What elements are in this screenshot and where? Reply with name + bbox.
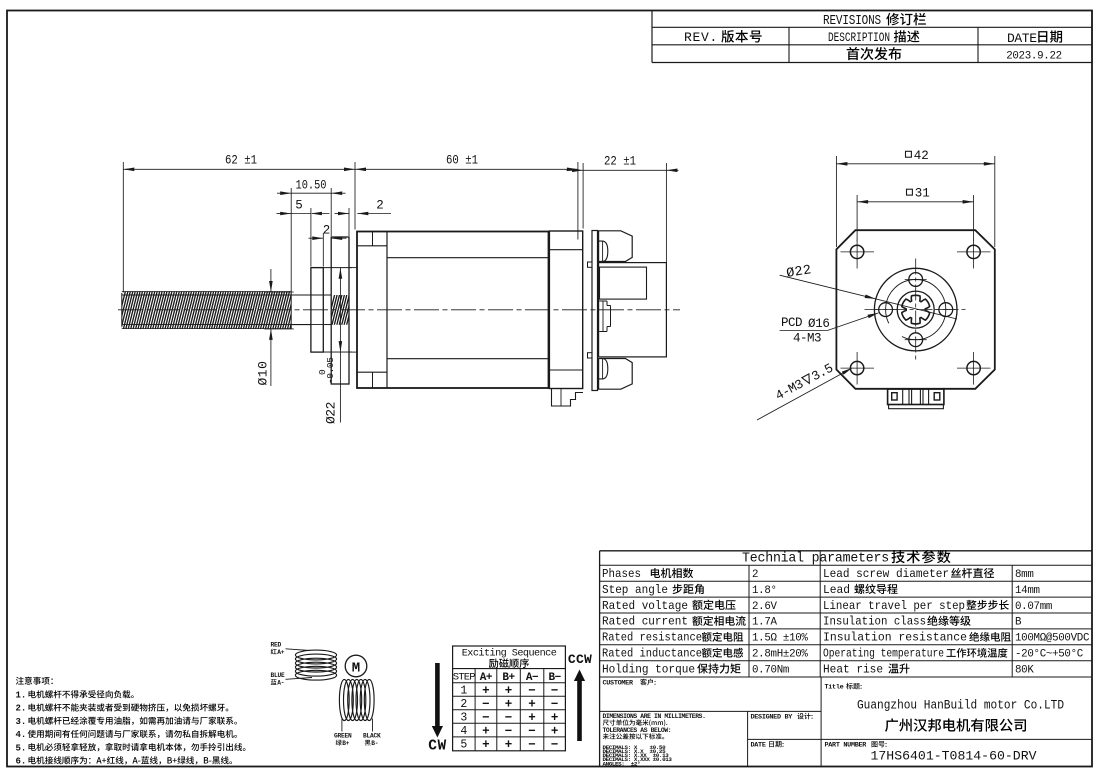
title block xyxy=(600,677,1092,767)
svg-text:5: 5 xyxy=(295,199,303,213)
svg-text:−: − xyxy=(528,738,536,752)
svg-text:B-: B- xyxy=(371,740,378,747)
svg-text:2.8mH±20%: 2.8mH±20% xyxy=(752,649,808,661)
svg-text:Rated current: Rated current xyxy=(602,615,688,629)
svg-text:Rated voltage: Rated voltage xyxy=(602,599,688,613)
exciting sequence table xyxy=(453,646,566,751)
dim 10.50 xyxy=(277,179,346,293)
CCW arrow xyxy=(568,652,592,741)
center shaft end detail xyxy=(599,301,610,332)
terminal pass-through tabs xyxy=(588,262,593,267)
svg-text:10.50: 10.50 xyxy=(296,179,327,193)
svg-text:A−: A− xyxy=(526,672,539,684)
svg-text:RED: RED xyxy=(271,642,282,649)
svg-text:+: + xyxy=(505,684,513,698)
svg-text:PCD: PCD xyxy=(781,316,809,330)
svg-text:TOLERANCES AS BELOW:: TOLERANCES AS BELOW: xyxy=(603,727,672,734)
svg-text:+: + xyxy=(551,724,559,738)
svg-text:DESIGNED BY: DESIGNED BY xyxy=(751,714,794,722)
svg-text:17HS6401-T0814-60-DRV: 17HS6401-T0814-60-DRV xyxy=(871,749,1037,764)
spline gear profile xyxy=(902,295,930,324)
screw thread end line xyxy=(290,292,292,329)
CW arrow xyxy=(428,663,446,755)
svg-text:14mm: 14mm xyxy=(1015,585,1040,597)
svg-text:Linear travel per step: Linear travel per step xyxy=(823,599,965,613)
svg-text:−: − xyxy=(528,724,536,738)
svg-text:B: B xyxy=(1015,617,1022,629)
label PCD dia16 / 4-M3 with leader xyxy=(780,313,879,346)
svg-text:A-: A- xyxy=(277,679,284,686)
svg-text:+: + xyxy=(505,697,513,711)
svg-text:1.5Ω ±10%: 1.5Ω ±10% xyxy=(752,633,808,645)
svg-text:22 ±1: 22 ±1 xyxy=(604,155,636,169)
front view centerlines xyxy=(915,259,917,361)
svg-text:B−: B− xyxy=(548,672,561,684)
svg-text:+: + xyxy=(482,738,490,752)
washer A (diam 22) xyxy=(311,268,323,353)
svg-text:STEP: STEP xyxy=(453,672,476,684)
svg-text:BLUE: BLUE xyxy=(271,672,286,679)
svg-text:Step angle: Step angle xyxy=(602,583,668,597)
svg-text:−: − xyxy=(505,724,513,738)
svg-text:1.7A: 1.7A xyxy=(752,617,778,629)
motor body side view xyxy=(357,232,549,389)
rear housing xyxy=(549,231,582,389)
svg-text:100MΩ@500VDC: 100MΩ@500VDC xyxy=(1015,633,1090,645)
svg-text:M: M xyxy=(352,661,360,677)
dim 22 +-1 xyxy=(567,155,679,263)
mounting hole BR xyxy=(957,352,991,385)
svg-text:+: + xyxy=(528,711,536,725)
PCD dia16 circle (with gap) xyxy=(886,280,946,340)
svg-text:A+: A+ xyxy=(277,649,285,656)
dim 2 pilot xyxy=(335,199,392,237)
svg-text:62 ±1: 62 ±1 xyxy=(225,154,257,168)
svg-text:2: 2 xyxy=(323,224,331,238)
boss circle dia22 xyxy=(874,268,957,351)
phase A wire top xyxy=(286,649,311,651)
svg-text:Ø16: Ø16 xyxy=(808,317,830,331)
svg-text:Heat rise: Heat rise xyxy=(823,662,883,676)
phase B wire right xyxy=(372,719,374,732)
dim dia22 tolerance xyxy=(312,268,352,424)
technical parameters table xyxy=(600,551,1092,767)
dim 60 +-1 xyxy=(355,154,578,240)
svg-text:Exciting Sequence: Exciting Sequence xyxy=(462,648,557,660)
middle connector inner box xyxy=(600,267,647,299)
svg-text:GREEN: GREEN xyxy=(334,733,352,740)
svg-text:0.70Nm: 0.70Nm xyxy=(752,664,789,676)
lead screw (hatched) xyxy=(116,291,331,329)
svg-text:8mm: 8mm xyxy=(1015,569,1034,581)
dim square31 xyxy=(857,187,974,241)
svg-text:4-M3: 4-M3 xyxy=(793,332,821,346)
svg-text:Ø10: Ø10 xyxy=(256,361,271,386)
svg-text:CUSTOMER: CUSTOMER xyxy=(603,680,634,688)
svg-text:2023.9.22: 2023.9.22 xyxy=(1006,51,1062,63)
svg-text:REV.: REV. xyxy=(684,30,718,45)
svg-text:Insulation resistance: Insulation resistance xyxy=(823,631,967,645)
svg-text:−: − xyxy=(551,738,559,752)
mounting hole BL xyxy=(841,352,875,385)
svg-text:1.8°: 1.8° xyxy=(752,585,777,597)
svg-text:4.: 4. xyxy=(16,730,27,740)
dim 5 xyxy=(277,199,330,267)
svg-text:−: − xyxy=(528,684,536,698)
mounting hole TR xyxy=(957,240,991,269)
svg-text:Title: Title xyxy=(825,684,844,692)
svg-text:−: − xyxy=(482,711,490,725)
body chamfer lines xyxy=(387,257,549,259)
svg-text:2: 2 xyxy=(376,199,384,213)
svg-text:+: + xyxy=(482,684,490,698)
svg-text:REVISIONS: REVISIONS xyxy=(823,14,881,29)
svg-text:-20°C~+50°C: -20°C~+50°C xyxy=(1015,649,1084,661)
svg-text:80K: 80K xyxy=(1015,664,1034,676)
svg-text:5.: 5. xyxy=(16,743,27,753)
bottom terminal screw head xyxy=(599,359,608,379)
front view body xyxy=(836,230,994,389)
label dia22 with leader xyxy=(780,263,957,319)
cap chamfer lines xyxy=(357,245,387,247)
flange disc B xyxy=(331,237,349,384)
svg-text:Lead screw diameter: Lead screw diameter xyxy=(823,567,949,581)
spline bore circle xyxy=(897,291,934,328)
svg-text:+: + xyxy=(551,711,559,725)
notes title xyxy=(16,677,53,685)
svg-text:Holding torque: Holding torque xyxy=(602,662,695,676)
top terminal block xyxy=(599,231,633,262)
svg-text:CCW: CCW xyxy=(568,652,592,667)
svg-text:PART NUMBER: PART NUMBER xyxy=(825,742,868,750)
svg-text:−: − xyxy=(551,684,559,698)
svg-text:31: 31 xyxy=(915,187,930,201)
phase A wire bottom xyxy=(286,678,313,680)
middle connector housing xyxy=(599,263,667,357)
M3 holes on PCD xyxy=(905,273,927,287)
svg-text:1.: 1. xyxy=(16,691,27,701)
svg-text:6.: 6. xyxy=(16,757,27,767)
svg-text:DATE: DATE xyxy=(1007,31,1037,46)
dim 2 washer gap xyxy=(309,224,347,267)
svg-text:5: 5 xyxy=(460,739,467,752)
top terminal screw head xyxy=(599,241,608,261)
svg-text:DIMENSIONS ARE IN MILLIMETERS.: DIMENSIONS ARE IN MILLIMETERS. xyxy=(603,713,706,720)
svg-text:Lead: Lead xyxy=(823,583,850,597)
svg-text:+: + xyxy=(528,697,536,711)
svg-text:1: 1 xyxy=(460,684,467,697)
svg-text:2: 2 xyxy=(460,698,467,711)
revision row: first release xyxy=(847,47,902,60)
front bottom connector xyxy=(888,389,944,409)
bottom terminal block xyxy=(599,359,633,390)
rear bottom tab (connector side) xyxy=(552,389,584,407)
svg-text:2.6V: 2.6V xyxy=(752,601,778,613)
svg-text:0.07mm: 0.07mm xyxy=(1015,601,1052,613)
front end cap line xyxy=(386,232,388,389)
svg-text:-0.05: -0.05 xyxy=(325,357,336,384)
svg-text:B+: B+ xyxy=(502,672,515,684)
svg-text:+: + xyxy=(482,724,490,738)
svg-text:Technial parameters: Technial parameters xyxy=(742,551,889,567)
svg-text:BLACK: BLACK xyxy=(363,733,381,740)
svg-text:Insulation class: Insulation class xyxy=(823,615,926,629)
svg-text:2.: 2. xyxy=(16,704,27,714)
label 4-M3 depth 3.5 with leader xyxy=(757,361,852,420)
svg-text:3.: 3. xyxy=(16,717,27,727)
svg-text:A+: A+ xyxy=(480,672,493,684)
svg-text:−: − xyxy=(551,697,559,711)
company name CN xyxy=(885,718,1026,731)
svg-text:60 ±1: 60 ±1 xyxy=(446,154,478,168)
mounting hole TL xyxy=(841,240,875,269)
side view centerline xyxy=(118,309,680,311)
svg-text:ANGLES: ±2°: ANGLES: ±2° xyxy=(603,760,641,767)
coil B (phase B winding) xyxy=(339,679,374,720)
svg-text:42: 42 xyxy=(914,149,929,163)
svg-text:Rated inductance: Rated inductance xyxy=(602,647,702,661)
rear PCB plate xyxy=(592,231,598,391)
svg-text:−: − xyxy=(482,697,490,711)
svg-text:3: 3 xyxy=(460,711,467,724)
svg-text:Phases: Phases xyxy=(602,567,641,581)
svg-text:DESCRIPTION: DESCRIPTION xyxy=(828,30,890,45)
svg-text:CW: CW xyxy=(428,739,446,755)
phase B wire left xyxy=(341,719,343,732)
svg-text:Ø22: Ø22 xyxy=(324,402,339,424)
smooth shank xyxy=(291,294,311,296)
svg-text:DATE: DATE xyxy=(751,742,766,750)
svg-text:Rated resistance: Rated resistance xyxy=(602,631,702,645)
dim square42 xyxy=(836,149,994,247)
coil A (phase A winding) xyxy=(295,650,336,680)
svg-text:2: 2 xyxy=(752,569,758,581)
motor M symbol xyxy=(345,655,367,677)
dim dia10 xyxy=(256,269,294,386)
svg-text:Operating temperature: Operating temperature xyxy=(823,647,944,661)
revisions table xyxy=(652,11,1092,63)
svg-text:−: − xyxy=(505,711,513,725)
dim 62 +-1 xyxy=(123,154,355,293)
svg-text:B+: B+ xyxy=(342,740,350,747)
svg-text:4: 4 xyxy=(460,725,467,738)
svg-text:Guangzhou HanBuild motor Co.LT: Guangzhou HanBuild motor Co.LTD xyxy=(857,698,1064,713)
pilot boss lines to motor face xyxy=(349,267,357,269)
svg-text:+: + xyxy=(505,738,513,752)
